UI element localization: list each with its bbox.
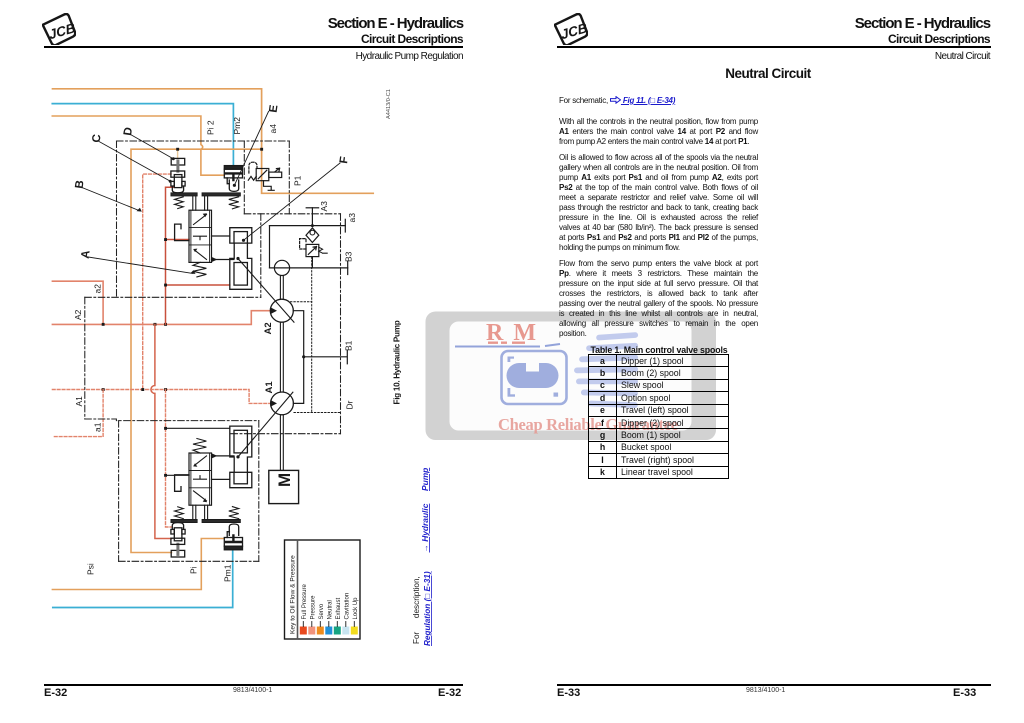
spring below spool (upper) <box>193 262 206 277</box>
pump A2 swash arm <box>238 259 294 323</box>
wire: spool to compensator top (upper) <box>212 235 230 237</box>
wire: orange servo gallery branch <box>131 149 262 552</box>
enclosure: P1 box bottom / A3 box top edge <box>244 213 340 215</box>
tank pipe on spool (lower) <box>175 475 189 492</box>
svg-text:B3: B3 <box>344 251 354 262</box>
enclosure: pump box right edge <box>340 214 342 434</box>
legend box <box>285 540 361 639</box>
enclosure: lower group left edge <box>118 421 120 562</box>
main control spool (upper) <box>189 210 212 262</box>
wire: red branch to compensator <box>166 284 230 286</box>
wire: orange stub to pilot valve D <box>177 149 179 158</box>
spring above spool (lower) <box>193 439 206 454</box>
pump A1 inlet arrowhead <box>270 400 277 407</box>
wire: lower spool to compensator (lower) <box>212 478 230 480</box>
svg-text:M: M <box>275 473 294 487</box>
svg-text:B1: B1 <box>344 340 354 351</box>
svg-text:B: B <box>74 180 87 190</box>
wire: black branch to lower compensator <box>166 427 230 429</box>
gauge circle on shaft <box>274 260 289 275</box>
enclosure: upper valve group top edge <box>117 140 290 142</box>
enclosure: upper group right edge <box>260 214 262 297</box>
junction dot B1 <box>302 355 305 358</box>
spring under right bar (upper) <box>229 197 239 209</box>
enclosure: P1 box left edge <box>243 141 245 214</box>
spring under left bar (upper) <box>175 197 184 209</box>
compensator valve F (upper) <box>230 228 252 290</box>
wire: cyan Pm2 line (top) <box>52 104 233 167</box>
wire: red feeder from pilot valve D <box>166 187 174 324</box>
svg-text:Fig 10. Hydraulic Pump: Fig 10. Hydraulic Pump <box>393 320 402 404</box>
svg-text:Pi 2: Pi 2 <box>206 120 216 135</box>
wire: salmon manifold to pump A2 <box>52 311 269 325</box>
enclosure: lower group top edge <box>85 419 259 421</box>
sub-circuit rails A3/a3/B3 <box>270 208 348 275</box>
svg-text:Pi: Pi <box>189 566 199 574</box>
wire: black branch to lower spool <box>166 474 190 476</box>
leader A <box>88 257 193 274</box>
pump A1 swash arm <box>238 392 293 457</box>
wire: salmon A2 external line <box>52 281 103 324</box>
main control spool (lower) <box>189 453 212 505</box>
wire: orange Pi external line <box>52 539 224 590</box>
junction dot compensator/pump arm (lower) <box>236 455 239 458</box>
svg-text:For description,: For description, <box>412 576 421 644</box>
wire: dashed a1 external line <box>53 390 103 437</box>
svg-text:Pressure: Pressure <box>310 595 316 620</box>
leader B <box>82 188 140 211</box>
pump A2 inlet arrowhead <box>270 307 277 314</box>
spring over right bar (lower) <box>229 507 239 519</box>
svg-text:A4413/0-C1: A4413/0-C1 <box>386 89 392 119</box>
pilot valve Pm1 (lower right) <box>224 524 242 550</box>
pump A1 (variable displacement) <box>271 392 294 415</box>
spring over left bar (lower) <box>175 507 184 519</box>
wire: salmon drop line with hop <box>151 324 172 538</box>
svg-text:C: C <box>91 134 104 144</box>
wire: orange servo supply P1 line (top) <box>53 89 374 194</box>
pilot valve D (dipper pilot, upper left) <box>171 158 185 192</box>
svg-text:Key to Oil Flow & Pressure: Key to Oil Flow & Pressure <box>290 555 297 634</box>
spring seats and stems (upper) <box>171 193 241 210</box>
check valve (diamond) <box>306 228 319 243</box>
wire: dashed servo pilot to valve D <box>143 174 171 389</box>
svg-text:Lock Up: Lock Up <box>353 597 359 620</box>
wire: spool to compensator bottom with check (upper) <box>212 259 235 261</box>
svg-text:E: E <box>268 104 281 114</box>
svg-text:Pm2: Pm2 <box>232 117 242 135</box>
leader F <box>244 163 341 240</box>
wire: red branch to main spool <box>166 239 190 241</box>
wire: dashed servo manifold to pump A1 <box>52 390 270 404</box>
svg-text:Exhaust: Exhaust <box>336 597 342 619</box>
svg-text:A1: A1 <box>264 381 275 394</box>
relief valve <box>300 239 328 268</box>
pilot valve Pm2 (upper right) <box>224 166 242 192</box>
svg-text:Dr: Dr <box>345 400 355 409</box>
junction dot red/spool <box>164 238 167 241</box>
leader C <box>99 142 170 182</box>
svg-text:Cavitation: Cavitation <box>344 593 350 620</box>
svg-text:A: A <box>80 250 93 260</box>
lower mirrored cluster <box>171 426 252 557</box>
leader E <box>234 112 268 186</box>
svg-text:A2: A2 <box>73 309 83 320</box>
spring seats and stems (lower) <box>171 505 241 522</box>
svg-text:a3: a3 <box>347 213 357 223</box>
JCB logo left page <box>42 13 76 45</box>
svg-text:Pump: Pump <box>420 468 430 491</box>
drive shaft <box>280 276 283 471</box>
case drain dotted lines <box>291 257 341 413</box>
junction dot compensator/pump arm (upper) <box>236 257 239 260</box>
enclosure: lower group bottom edge <box>119 560 259 562</box>
svg-text:A3: A3 <box>319 201 329 212</box>
enclosure: pump box bottom edge <box>231 433 341 435</box>
leader D <box>131 135 174 159</box>
svg-text:Pm1: Pm1 <box>223 564 233 582</box>
enclosure: lower group right edge <box>258 421 260 562</box>
junction dot A3 <box>311 224 314 227</box>
svg-text:D: D <box>122 127 135 137</box>
svg-text:→ Hydraulic: → Hydraulic <box>420 503 430 552</box>
motor M <box>269 470 299 503</box>
pilot valve P1 (top right cluster) <box>248 162 281 190</box>
junction dot Pi2/servo <box>176 148 179 151</box>
svg-text:a4: a4 <box>268 124 278 134</box>
junction dots on dashed manifold <box>102 388 105 391</box>
svg-text:Regulation (□ E-31): Regulation (□ E-31) <box>423 571 432 646</box>
wire: B1 branch <box>304 350 348 364</box>
svg-text:A2: A2 <box>263 322 274 334</box>
enclosure: P1 box right edge <box>288 141 290 214</box>
svg-text:Servo: Servo <box>319 603 325 619</box>
enclosure: A-port box left edge <box>84 297 86 419</box>
pilot valve Pi (lower left) <box>171 523 185 557</box>
tank pipe on spool (upper) <box>175 224 189 241</box>
junction dot a4/servo <box>260 148 263 151</box>
svg-text:P1: P1 <box>293 175 303 186</box>
svg-text:Full Pressure: Full Pressure <box>302 583 308 619</box>
wire: dashed drop to pilot valve Pi <box>166 390 172 528</box>
wire: cyan Pm1 external line <box>53 549 233 607</box>
svg-text:Psi: Psi <box>86 563 96 575</box>
svg-text:A1: A1 <box>74 396 84 407</box>
JCB logo right page <box>554 13 588 45</box>
svg-text:a1: a1 <box>93 422 103 432</box>
enclosure: upper valve group left edge <box>116 141 118 297</box>
pump A2 outlet wire <box>293 311 303 404</box>
pump A2 (variable displacement) <box>270 299 293 322</box>
legend swatch Full Pressure <box>300 583 359 634</box>
junction dot red/comp <box>164 284 167 287</box>
junction dots on manifold <box>102 323 105 326</box>
svg-text:Neutral: Neutral <box>327 600 333 619</box>
enclosure: upper group bottom edge <box>85 296 261 298</box>
compensator valve (lower) <box>230 426 252 488</box>
svg-text:a2: a2 <box>93 284 103 294</box>
wire: orange Pi 2 line <box>52 116 224 175</box>
